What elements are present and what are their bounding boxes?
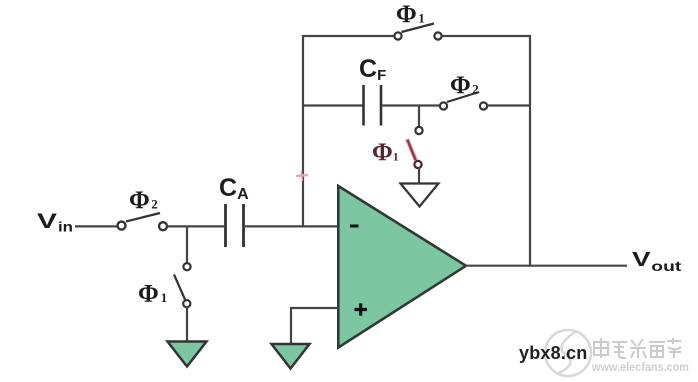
switch S2 (phi2 feedback) left contact <box>440 102 447 109</box>
ground (green triangle, input) <box>168 342 207 367</box>
op-amp plus sign <box>355 308 368 311</box>
ground (white triangle, reset) <box>401 184 439 207</box>
wire: right feedback vertical <box>529 35 531 266</box>
wire: reset switch to ground <box>418 167 420 184</box>
wire: left feedback vertical <box>302 35 304 227</box>
wire: CF row, right of phi2 switch <box>487 104 531 106</box>
capacitor CA right plate <box>242 204 245 247</box>
wire: Vin to input switch <box>75 225 117 227</box>
wire: vertical stub from CF row to phi1 reset switch <box>418 106 420 127</box>
red annotation artifact near node <box>296 175 308 176</box>
switch S5 (phi1 input) bottom contact <box>183 300 190 307</box>
wire: top feedback horizontal left segment <box>303 35 394 37</box>
switch S2 (phi2 feedback) lever <box>447 92 479 102</box>
switch S2 (phi2 feedback) right contact <box>480 102 487 109</box>
ground (green triangle, non-inverting) <box>272 344 310 369</box>
wire: CF row, capacitor to phi2 switch <box>382 104 439 106</box>
capacitor CF right plate <box>380 85 383 126</box>
op-amp U1 <box>338 186 466 348</box>
switch S5 (phi1 input) top contact <box>183 263 190 270</box>
wire: non-inverting input down to ground <box>290 308 292 345</box>
switch S3 (phi1 reset) top contact <box>415 127 422 134</box>
wire: non-inverting input <box>290 307 339 309</box>
capacitor CA left plate <box>224 204 227 247</box>
wire: input switch to ground <box>186 307 188 343</box>
switch S3 (phi1 reset) bottom contact <box>414 161 421 168</box>
wire: top feedback horizontal right segment <box>442 35 531 37</box>
switch S5 (phi1 input) lever <box>174 275 185 300</box>
switch S3 (phi1 reset) lever (red) <box>407 139 416 161</box>
op-amp minus sign <box>350 225 359 228</box>
switch S4 (phi2 input) right contact <box>159 222 167 230</box>
watermark logo circle (elecfans) <box>545 330 591 376</box>
wire: op-amp output <box>465 265 627 267</box>
wire: CA to op-amp inverting input <box>244 225 339 227</box>
switch S4 (phi2 input) lever <box>126 213 160 222</box>
switch S1 (phi1 top) lever <box>402 24 435 33</box>
switch S1 (phi1 top) left contact <box>394 32 401 39</box>
svg-text:ybx8.cn: ybx8.cn <box>519 343 587 363</box>
switch S4 (phi2 input) left contact <box>118 222 126 230</box>
switch S1 (phi1 top) right contact <box>434 32 441 39</box>
watermark chinese characters (approximated glyph blocks) <box>594 338 681 358</box>
wire: input switch to capacitor CA <box>167 225 224 227</box>
capacitor CF left plate <box>362 85 365 126</box>
svg-text:www.elecfans.com: www.elecfans.com <box>591 362 689 374</box>
wire: CF row, left of capacitor <box>303 104 363 106</box>
wire: vertical stub to phi1 input-ground switch <box>186 226 188 263</box>
